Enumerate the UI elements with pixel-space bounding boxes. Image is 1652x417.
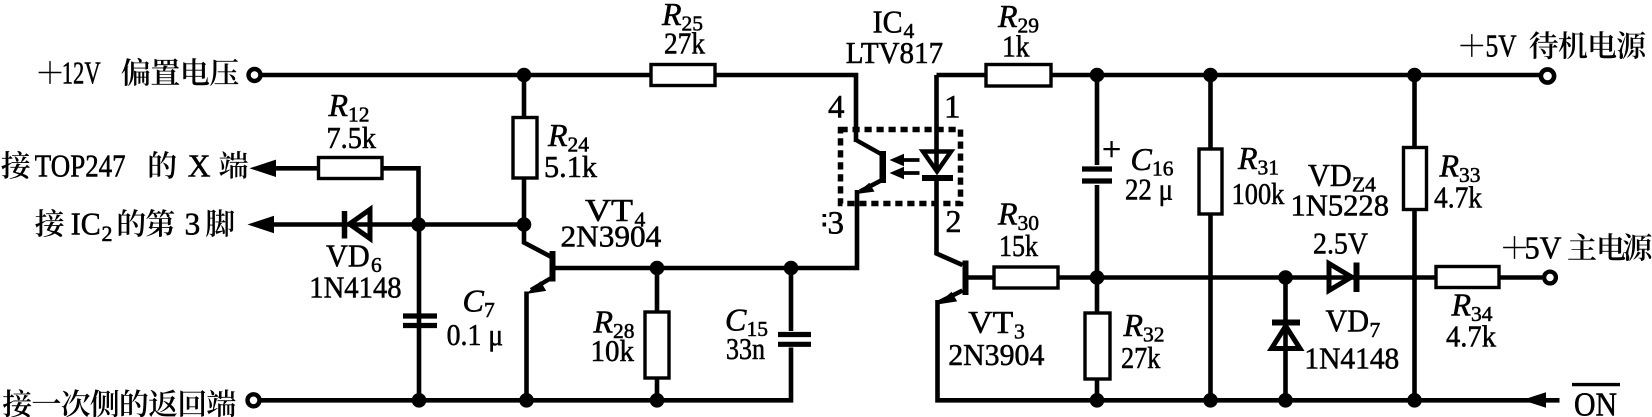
junction ON rail / R33 (1407, 393, 1422, 408)
transistor VT3 2N3904 base bar (963, 261, 969, 296)
node label: to TOP247 X pin (1, 148, 247, 183)
svg-text:1N4148: 1N4148 (1304, 341, 1399, 376)
wire VD7 branch from main line down to ON rail (1283, 278, 1288, 401)
wire R24 branch from top rail down to node A (522, 75, 527, 225)
diode VD7 vertical (anode bottom, cathode bar top) (1272, 323, 1301, 349)
svg-text:12V: 12V (62, 56, 101, 91)
svg-text:R: R (1123, 307, 1144, 343)
wire top rail right (937, 73, 1541, 78)
junction bottom rail / VT4 emitter (519, 393, 534, 408)
svg-text:4: 4 (828, 90, 845, 126)
wire C15 branch (789, 268, 794, 331)
optocoupler LED cathode bar (922, 175, 953, 181)
optocoupler LED triangle (pointing down) (923, 152, 951, 172)
junction ON rail / VD7 (1278, 393, 1293, 408)
optocoupler phototransistor collector diagonal (856, 140, 881, 154)
resistor R25 27k body (651, 65, 715, 86)
node label: to IC2 pin 3 (35, 206, 234, 246)
svg-text:2N3904: 2N3904 (948, 337, 1045, 372)
junction VT4 base line / R28 (650, 261, 665, 276)
resistor R24 5.1k body (513, 118, 537, 179)
svg-text:R: R (1439, 148, 1460, 184)
svg-text:IC: IC (71, 206, 101, 241)
capacitor C7 0.1u plates (403, 316, 437, 326)
svg-text:R: R (1237, 140, 1258, 176)
svg-text:TOP247: TOP247 (35, 148, 126, 183)
terminal +5V main (1544, 272, 1556, 284)
junction node A: R12 drop / VD6 line / C7 branch (411, 217, 426, 232)
transistor VT4 emitter with arrow (531, 278, 552, 291)
wire R33 branch from top rail through main line to ON rail (1412, 75, 1417, 400)
wire C7 branch from VD6 line down to bottom rail (417, 225, 422, 401)
optocoupler light arrow upper (903, 158, 920, 162)
capacitor C16 22u electrolytic plates (1082, 169, 1112, 181)
node label +12V bias voltage (39, 56, 239, 91)
terminal +12V input (249, 69, 261, 81)
resistor R32 27k body (1085, 313, 1110, 379)
svg-text:22 μ: 22 μ (1125, 172, 1173, 207)
svg-text:X: X (188, 148, 211, 183)
svg-text:1N5228: 1N5228 (1291, 188, 1390, 223)
node label +5V main supply (1503, 231, 1652, 266)
svg-text:7: 7 (1370, 318, 1381, 342)
resistor R29 1k body (986, 65, 1051, 87)
wire C16 branch (1095, 75, 1100, 165)
wire R12 line: arrow shaft to R12 to vertical drop joining VD6 line (268, 168, 419, 224)
arrow to TOP247 X pin (250, 160, 277, 177)
junction VT4 base line / C15 (784, 261, 799, 276)
junction main 5V line / VD7 branch (1278, 270, 1293, 285)
wire optocoupler LED branch from top rail through LED to VT3 collector (934, 75, 939, 171)
junction ON rail / R32 (1090, 393, 1105, 408)
optocoupler IC4 dashed package box (841, 130, 961, 204)
svg-text:R: R (997, 196, 1018, 232)
junction top rail / R33 branch (1407, 68, 1422, 83)
wire VT3 base line / +5V main line to terminal (968, 275, 1542, 280)
svg-text:1k: 1k (1002, 29, 1030, 64)
svg-text:7.5k: 7.5k (327, 120, 377, 155)
resistor R28 10k body (645, 312, 669, 378)
svg-text:3: 3 (828, 206, 845, 242)
wire R32 branch (1095, 278, 1100, 401)
node label +5V standby supply (1460, 29, 1645, 64)
svg-text:R: R (1451, 287, 1472, 323)
svg-text:VD: VD (326, 238, 370, 274)
capacitor C15 33n plates (778, 335, 811, 345)
junction top rail / R31 branch (1203, 68, 1218, 83)
svg-text:5V: 5V (1486, 29, 1517, 64)
junction top rail / C16 branch (1090, 68, 1105, 83)
svg-text:3: 3 (185, 206, 201, 241)
node label: to primary-side return (3, 389, 236, 417)
arrow on ON line (pointing left) (1522, 392, 1546, 407)
arrow to IC2 pin 3 (248, 216, 275, 233)
optocoupler phototransistor base bar (880, 151, 887, 183)
svg-text:4.7k: 4.7k (1434, 180, 1482, 215)
svg-text:R: R (328, 87, 349, 123)
svg-text:VT: VT (968, 304, 1013, 340)
terminal +5V standby (1541, 69, 1554, 82)
junction bottom rail / R28 (650, 393, 665, 408)
svg-text:LTV817: LTV817 (846, 35, 943, 70)
resistor R31 100k body (1199, 149, 1222, 214)
transistor VT3 emitter arrow (937, 292, 957, 305)
junction bottom rail / C7 (412, 393, 427, 408)
wire VT3 emitter to bottom rail, bottom ON rail (938, 291, 1560, 401)
wire VD6 line from arrow to node A (266, 222, 524, 227)
wire R28 branch (655, 268, 660, 400)
optocoupler light arrow lower (903, 171, 920, 175)
terminal primary return (248, 394, 260, 406)
svg-text:2N3904: 2N3904 (561, 219, 662, 254)
wire bottom rail left with C15 return (254, 348, 792, 401)
resistor R30 15k body (994, 267, 1058, 288)
scan artifact colon marks beside pin 3 (823, 214, 827, 217)
junction ON rail / R31 (1203, 393, 1218, 408)
svg-text:33n: 33n (726, 331, 765, 366)
diode VD6 1N4148 (cathode bar and left-pointing triangle) (345, 210, 371, 239)
svg-text:100k: 100k (1232, 176, 1285, 211)
svg-text:0.1 μ: 0.1 μ (447, 317, 504, 352)
svg-text:2: 2 (946, 203, 962, 239)
junction node A: R24 / VT4 collector (517, 217, 532, 232)
zener diode VDZ4 1N5228 horizontal on main line (pointing right) (1329, 263, 1357, 293)
svg-text:5V: 5V (1525, 231, 1562, 266)
resistor R12 7.5k body (319, 158, 383, 179)
wire VT4 emitter down to bottom rail (524, 292, 529, 401)
resistor R34 4.7k body (1436, 267, 1499, 288)
wire VT4 base line to R28, C15 and optocoupler pin 3 (556, 190, 858, 268)
resistor R33 4.7k body (1404, 148, 1427, 210)
svg-text:C: C (463, 283, 485, 319)
svg-text:2: 2 (102, 221, 113, 246)
svg-text:ON: ON (1574, 387, 1617, 417)
svg-text:10k: 10k (591, 333, 635, 368)
svg-text:27k: 27k (664, 26, 705, 61)
svg-text:15k: 15k (999, 228, 1038, 263)
svg-text:5.1k: 5.1k (544, 149, 597, 184)
optocoupler phototransistor emitter diagonal with arrow (860, 180, 882, 192)
node label ON (active low) with overline (1572, 383, 1620, 386)
svg-text:+: + (1102, 132, 1121, 169)
wire top rail left from +12V terminal to optocoupler pin 4 (261, 75, 856, 142)
svg-text:27k: 27k (1121, 340, 1161, 375)
svg-text:1: 1 (944, 90, 961, 126)
svg-text:1N4148: 1N4148 (309, 270, 401, 305)
wire VT4 collector from node A down to transistor (524, 225, 551, 257)
svg-text:R: R (547, 117, 568, 153)
transistor VT4 2N3904 base bar (550, 251, 556, 282)
junction main 5V line / C16 / R32 (1090, 270, 1105, 285)
svg-text:2.5V: 2.5V (1313, 226, 1369, 261)
junction top rail / R24 branch (517, 68, 532, 83)
svg-text:4.7k: 4.7k (1446, 319, 1496, 354)
svg-text:VD: VD (1326, 303, 1370, 339)
wire R31 branch from top rail through to ON rail (1208, 75, 1213, 400)
